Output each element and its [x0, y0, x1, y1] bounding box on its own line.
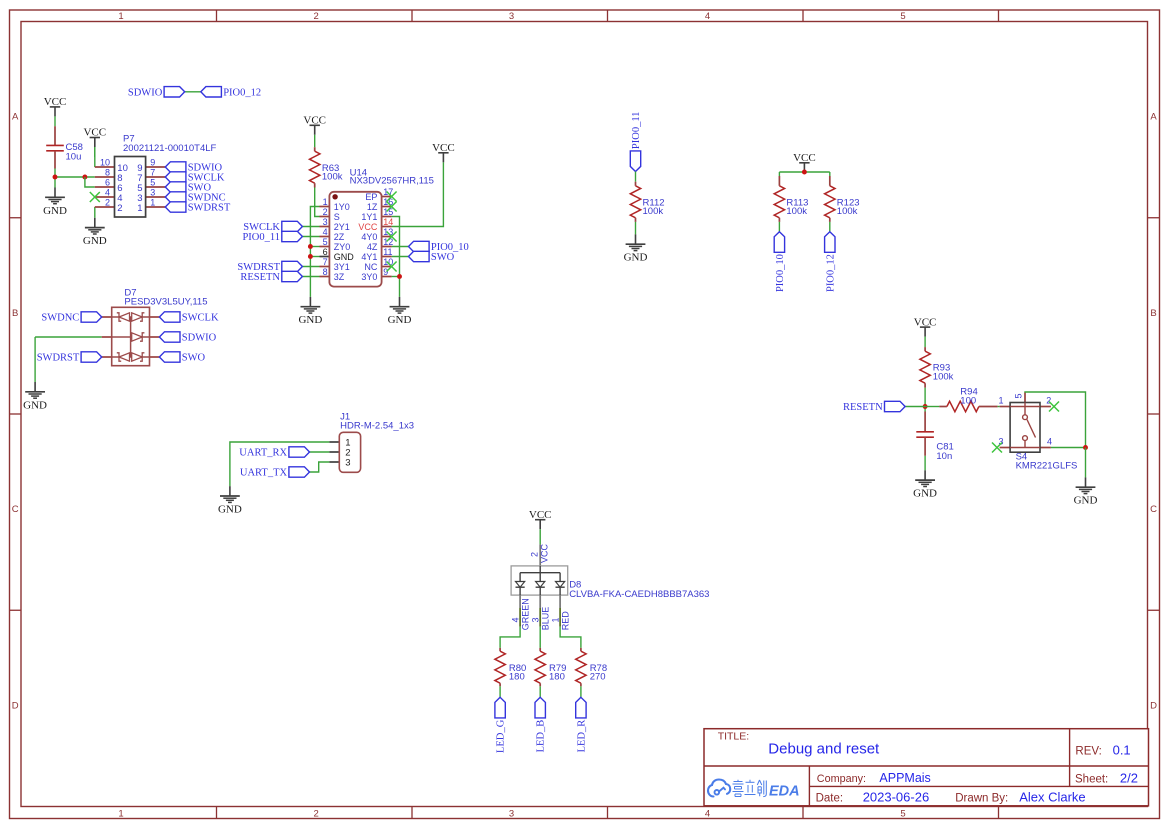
svg-text:9: 9	[383, 267, 388, 277]
svg-text:1: 1	[323, 197, 328, 207]
svg-text:3: 3	[531, 617, 541, 622]
svg-text:VCC: VCC	[540, 543, 550, 563]
svg-text:Sheet:: Sheet:	[1075, 774, 1108, 786]
svg-text:4: 4	[105, 188, 110, 198]
svg-text:5: 5	[323, 237, 328, 247]
svg-text:10: 10	[100, 158, 110, 168]
svg-text:B: B	[1150, 308, 1156, 319]
svg-text:270: 270	[590, 672, 606, 683]
svg-text:4: 4	[705, 11, 710, 22]
svg-text:GND: GND	[1074, 495, 1098, 507]
svg-text:20021121-00010T4LF: 20021121-00010T4LF	[123, 143, 217, 154]
svg-text:3: 3	[345, 458, 350, 469]
svg-text:1Y0: 1Y0	[334, 202, 350, 212]
svg-text:GND: GND	[913, 488, 937, 500]
svg-text:NC: NC	[364, 262, 377, 272]
svg-text:4: 4	[1047, 437, 1052, 447]
svg-text:D: D	[1150, 700, 1157, 711]
svg-text:2/2: 2/2	[1120, 771, 1138, 786]
svg-text:3Z: 3Z	[334, 272, 345, 282]
svg-text:LED_G: LED_G	[496, 719, 507, 753]
svg-text:GND: GND	[23, 399, 47, 411]
svg-text:GND: GND	[334, 252, 355, 262]
svg-text:2: 2	[117, 203, 122, 214]
svg-text:GND: GND	[43, 205, 67, 217]
svg-text:C: C	[1150, 504, 1157, 515]
svg-text:GREEN: GREEN	[521, 598, 531, 630]
svg-text:A: A	[12, 112, 19, 123]
svg-text:180: 180	[509, 672, 525, 683]
svg-text:SWO: SWO	[431, 252, 455, 263]
svg-text:UART_RX: UART_RX	[239, 448, 287, 459]
svg-text:B: B	[12, 308, 18, 319]
svg-text:14: 14	[383, 217, 393, 227]
svg-text:Alex Clarke: Alex Clarke	[1019, 789, 1085, 804]
svg-text:9: 9	[150, 158, 155, 168]
svg-text:3: 3	[150, 188, 155, 198]
svg-text:PESD3V3L5UY,115: PESD3V3L5UY,115	[124, 296, 207, 307]
svg-text:EP: EP	[365, 192, 377, 202]
svg-text:C: C	[12, 504, 19, 515]
svg-text:SDWIO: SDWIO	[182, 333, 217, 344]
svg-text:180: 180	[549, 672, 565, 683]
svg-text:1: 1	[998, 396, 1003, 406]
svg-text:6: 6	[323, 247, 328, 257]
svg-text:PIO0_10: PIO0_10	[775, 254, 786, 292]
svg-text:Company:: Company:	[817, 773, 866, 785]
svg-text:GND: GND	[83, 235, 107, 247]
svg-text:SWO: SWO	[182, 353, 206, 364]
svg-text:5: 5	[900, 11, 905, 22]
svg-text:ZY0: ZY0	[334, 242, 351, 252]
svg-text:2Z: 2Z	[334, 232, 345, 242]
svg-text:4: 4	[323, 227, 328, 237]
svg-text:GND: GND	[388, 314, 412, 326]
svg-text:EDA: EDA	[769, 784, 800, 800]
svg-text:BLUE: BLUE	[541, 607, 551, 631]
svg-text:1: 1	[137, 203, 142, 214]
svg-text:7: 7	[323, 257, 328, 267]
svg-text:100k: 100k	[837, 206, 858, 217]
svg-text:D: D	[12, 700, 19, 711]
svg-text:TITLE:: TITLE:	[718, 730, 750, 742]
svg-text:1: 1	[118, 809, 123, 820]
svg-text:CLVBA-FKA-CAEDH8BBB7A363: CLVBA-FKA-CAEDH8BBB7A363	[569, 589, 709, 600]
svg-text:2: 2	[323, 207, 328, 217]
svg-text:100k: 100k	[933, 371, 954, 382]
svg-text:3: 3	[509, 809, 514, 820]
svg-text:Date:: Date:	[816, 792, 844, 804]
svg-text:4: 4	[705, 809, 710, 820]
svg-text:0.1: 0.1	[1113, 742, 1131, 757]
svg-text:10u: 10u	[66, 152, 82, 163]
svg-text:A: A	[1150, 112, 1157, 123]
svg-text:SWCLK: SWCLK	[182, 313, 219, 324]
svg-text:PIO0_11: PIO0_11	[242, 232, 280, 243]
svg-text:8: 8	[323, 267, 328, 277]
svg-text:SWDNC: SWDNC	[41, 313, 79, 324]
svg-text:RED: RED	[561, 611, 571, 631]
svg-text:UART_TX: UART_TX	[240, 468, 288, 479]
svg-text:5: 5	[150, 178, 155, 188]
svg-text:SWDRST: SWDRST	[188, 203, 231, 214]
svg-text:VCC: VCC	[358, 222, 378, 232]
svg-text:7: 7	[150, 168, 155, 178]
svg-text:100k: 100k	[643, 206, 664, 217]
svg-text:S: S	[334, 212, 340, 222]
svg-text:4Y0: 4Y0	[361, 232, 377, 242]
svg-text:HDR-M-2.54_1x3: HDR-M-2.54_1x3	[340, 421, 414, 432]
svg-text:15: 15	[383, 207, 393, 217]
svg-text:2Y1: 2Y1	[334, 222, 350, 232]
svg-text:2: 2	[314, 809, 319, 820]
svg-text:PIO0_12: PIO0_12	[223, 87, 261, 98]
svg-text:100k: 100k	[322, 172, 343, 183]
svg-text:GND: GND	[624, 252, 648, 264]
svg-text:100: 100	[960, 395, 976, 406]
svg-text:SDWIO: SDWIO	[128, 87, 163, 98]
svg-text:2: 2	[105, 198, 110, 208]
svg-text:Debug and reset: Debug and reset	[768, 741, 880, 758]
svg-text:GND: GND	[298, 314, 322, 326]
svg-text:REV:: REV:	[1075, 745, 1101, 757]
svg-text:2023-06-26: 2023-06-26	[863, 789, 930, 804]
svg-text:NX3DV2567HR,115: NX3DV2567HR,115	[350, 176, 434, 187]
svg-text:1Y1: 1Y1	[361, 212, 377, 222]
svg-text:PIO0_12: PIO0_12	[825, 254, 836, 292]
svg-text:4Y1: 4Y1	[361, 252, 377, 262]
svg-text:100k: 100k	[786, 206, 807, 217]
svg-text:12: 12	[383, 237, 393, 247]
svg-text:PIO0_11: PIO0_11	[631, 112, 642, 150]
svg-text:GND: GND	[218, 504, 242, 516]
svg-text:RESETN: RESETN	[843, 402, 883, 413]
svg-text:1: 1	[118, 11, 123, 22]
svg-text:3Y1: 3Y1	[334, 262, 350, 272]
svg-text:LED_B: LED_B	[536, 720, 547, 753]
svg-text:1: 1	[551, 617, 561, 622]
svg-text:5: 5	[1014, 393, 1024, 398]
svg-text:3: 3	[509, 11, 514, 22]
svg-text:4Z: 4Z	[367, 242, 378, 252]
svg-text:KMR221GLFS: KMR221GLFS	[1016, 460, 1078, 471]
svg-text:RESETN: RESETN	[240, 272, 280, 283]
svg-text:1: 1	[150, 198, 155, 208]
svg-text:6: 6	[105, 178, 110, 188]
svg-text:5: 5	[900, 809, 905, 820]
svg-text:3: 3	[323, 217, 328, 227]
svg-text:4: 4	[511, 617, 521, 622]
svg-text:10n: 10n	[936, 451, 952, 462]
svg-text:2: 2	[530, 552, 540, 557]
svg-text:LED_R: LED_R	[576, 720, 587, 753]
svg-text:8: 8	[105, 168, 110, 178]
svg-text:1Z: 1Z	[367, 202, 378, 212]
svg-text:2: 2	[314, 11, 319, 22]
svg-text:APPMais: APPMais	[879, 771, 930, 785]
svg-text:3Y0: 3Y0	[361, 272, 377, 282]
svg-text:Drawn By:: Drawn By:	[955, 792, 1008, 804]
svg-text:SWDRST: SWDRST	[37, 353, 80, 364]
svg-text:11: 11	[383, 247, 392, 257]
